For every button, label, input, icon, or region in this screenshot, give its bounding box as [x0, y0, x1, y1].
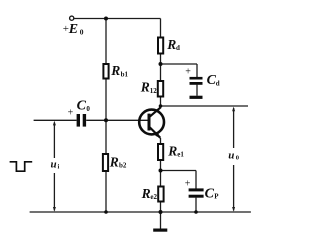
svg-text:R: R	[166, 37, 176, 52]
svg-text:C: C	[205, 187, 215, 202]
svg-text:R: R	[109, 154, 119, 169]
svg-text:R: R	[140, 80, 150, 95]
svg-text:+: +	[185, 66, 191, 77]
svg-text:E: E	[68, 22, 78, 37]
svg-text:e1: e1	[177, 150, 184, 158]
svg-text:0: 0	[236, 154, 239, 161]
svg-text:+: +	[68, 108, 74, 119]
svg-text:u: u	[51, 159, 57, 171]
svg-text:P: P	[214, 193, 219, 201]
svg-text:b2: b2	[119, 162, 127, 170]
svg-text:C: C	[77, 99, 87, 114]
svg-text:e2: e2	[150, 193, 157, 201]
svg-text:R: R	[141, 186, 151, 201]
svg-text:R: R	[167, 143, 177, 158]
svg-text:0: 0	[80, 27, 84, 36]
svg-text:12: 12	[150, 87, 158, 95]
svg-text:+: +	[185, 179, 191, 190]
svg-text:d: d	[216, 79, 220, 87]
svg-text:i: i	[58, 164, 60, 171]
svg-text:u: u	[228, 149, 234, 161]
svg-text:d: d	[176, 44, 180, 52]
svg-text:R: R	[110, 63, 120, 78]
svg-text:b1: b1	[121, 70, 129, 78]
svg-text:0: 0	[86, 105, 90, 113]
